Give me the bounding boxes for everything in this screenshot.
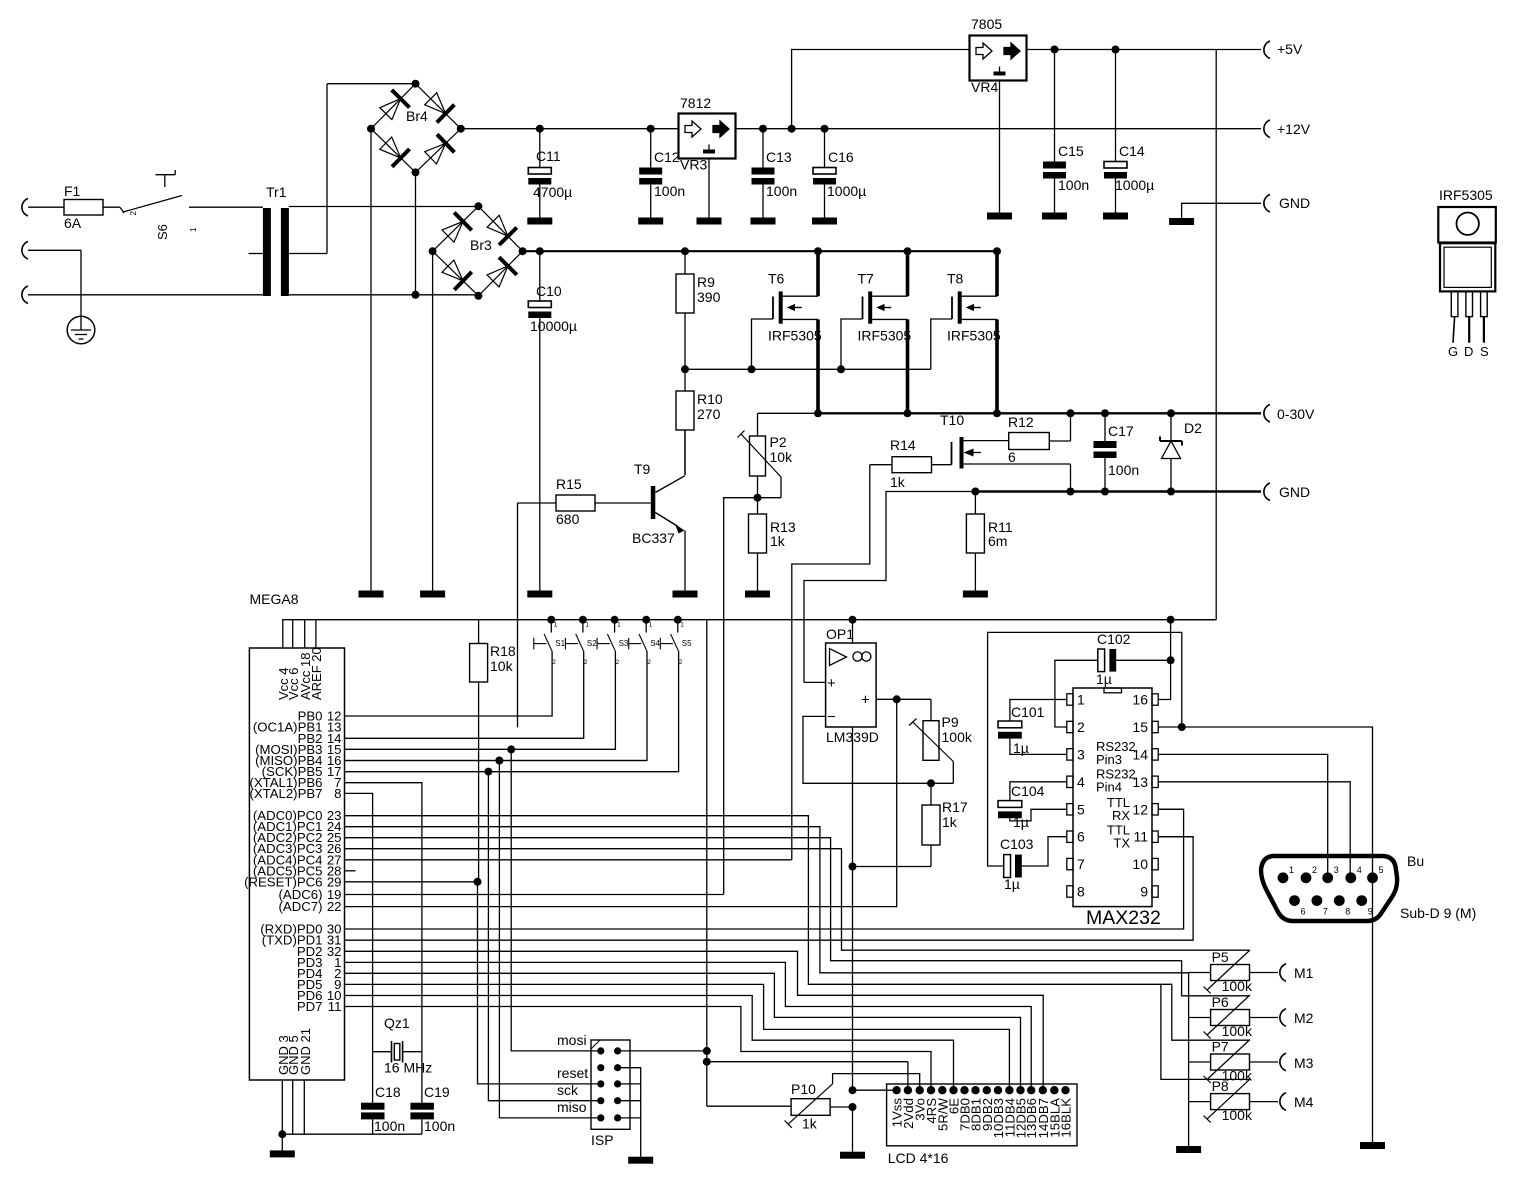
ground	[963, 591, 988, 598]
ground	[628, 1157, 653, 1164]
node -in/R17	[927, 779, 935, 787]
terminal +5V	[1264, 41, 1303, 59]
capacitor C15	[1043, 46, 1089, 213]
wire 0-30V rail	[818, 412, 1261, 414]
svg-text:1: 1	[680, 622, 684, 629]
wire	[708, 159, 710, 218]
svg-text:680: 680	[556, 511, 580, 527]
svg-text:P2: P2	[770, 434, 787, 450]
ground	[1360, 1142, 1385, 1149]
fuse F1	[64, 183, 103, 231]
op-amp OP1	[826, 626, 879, 745]
wire GND rail	[975, 490, 1261, 492]
terminal M1	[1250, 964, 1314, 982]
svg-text:R15: R15	[556, 476, 582, 492]
svg-text:Tr1: Tr1	[266, 184, 287, 200]
svg-text:sck: sck	[557, 1082, 579, 1098]
transistor T6	[748, 247, 823, 417]
wire PC4 row	[345, 859, 792, 861]
svg-text:Pin3: Pin3	[1096, 752, 1122, 767]
svg-text:100n: 100n	[1058, 177, 1089, 193]
node gate bus left	[681, 365, 689, 373]
wire PC2 net	[345, 838, 1250, 996]
wire PD1 net	[345, 837, 1194, 941]
wire PC1 net	[345, 827, 1189, 1146]
svg-text:1k: 1k	[890, 474, 906, 490]
svg-text:PD7: PD7	[297, 999, 323, 1014]
wire	[370, 129, 372, 591]
svg-text:100k: 100k	[942, 729, 973, 745]
svg-text:VR3: VR3	[680, 157, 707, 173]
terminal GND (top)	[1264, 195, 1310, 213]
switch S1	[345, 616, 566, 716]
ground	[697, 218, 722, 225]
svg-text:Qz1: Qz1	[384, 1015, 410, 1031]
wire	[28, 294, 263, 296]
svg-text:10: 10	[1132, 856, 1148, 872]
svg-text:9: 9	[1368, 907, 1373, 917]
wire PD6 net	[345, 996, 954, 1091]
svg-text:1µ: 1µ	[1096, 671, 1112, 687]
svg-text:11: 11	[328, 999, 342, 1014]
svg-text:IRF5305: IRF5305	[858, 328, 912, 344]
svg-text:C13: C13	[766, 149, 792, 165]
capacitor C17	[1094, 409, 1140, 495]
svg-text:IRF5305: IRF5305	[768, 328, 822, 344]
ground	[420, 591, 445, 598]
ground	[1042, 213, 1067, 220]
svg-text:BC337: BC337	[632, 530, 675, 546]
svg-text:Bu: Bu	[1407, 853, 1424, 869]
svg-text:3: 3	[1077, 746, 1085, 762]
svg-text:+5V: +5V	[1277, 41, 1303, 57]
ground	[270, 1150, 295, 1157]
bridge rectifier Br4	[367, 80, 465, 177]
wire PC5 stub	[345, 870, 356, 872]
svg-text:C15: C15	[1058, 143, 1084, 159]
wire 7805 feed	[792, 50, 970, 129]
svg-text:1µ: 1µ	[1013, 740, 1029, 756]
transistor T10	[940, 412, 1071, 469]
ground	[1176, 1146, 1201, 1153]
svg-text:2: 2	[552, 659, 556, 666]
svg-text:C11: C11	[536, 148, 561, 164]
svg-text:16: 16	[1132, 692, 1148, 708]
wire	[28, 249, 81, 251]
svg-text:2: 2	[1077, 719, 1085, 735]
svg-text:2: 2	[647, 659, 651, 666]
capacitor C10	[528, 247, 577, 590]
wire 0-30V rail thin	[758, 412, 819, 414]
svg-text:2: 2	[584, 659, 588, 666]
IRF5305 package drawing	[1438, 187, 1496, 359]
wire RESET	[345, 878, 601, 1084]
svg-text:100n: 100n	[766, 183, 797, 199]
svg-text:0-30V: 0-30V	[1277, 406, 1315, 422]
svg-text:100k: 100k	[1222, 1023, 1253, 1039]
svg-text:4: 4	[1077, 774, 1085, 790]
wire +12V rail right	[736, 128, 1262, 130]
svg-text:+12V: +12V	[1277, 121, 1311, 137]
wire +5V down	[1215, 50, 1217, 620]
input terminal J2 (neutral)	[22, 242, 28, 260]
terminal M4	[1250, 1093, 1314, 1111]
svg-text:P9: P9	[942, 714, 959, 730]
svg-text:D2: D2	[1184, 420, 1202, 436]
svg-text:1: 1	[1289, 865, 1294, 875]
svg-text:C101: C101	[1011, 704, 1045, 720]
svg-text:1k: 1k	[942, 814, 958, 830]
wire to ADC6	[724, 498, 758, 895]
wire ADC6 row	[345, 894, 724, 896]
wire	[189, 206, 263, 208]
svg-text:C103: C103	[1000, 836, 1034, 852]
svg-text:S5: S5	[682, 639, 692, 648]
svg-text:R12: R12	[1008, 414, 1034, 430]
svg-text:7812: 7812	[680, 95, 711, 111]
wire PC0 net	[345, 816, 1250, 1040]
wire R17 gnd	[849, 863, 932, 871]
svg-text:1000µ: 1000µ	[1115, 177, 1154, 193]
svg-text:MEGA8: MEGA8	[250, 591, 299, 607]
svg-text:6: 6	[1008, 449, 1016, 465]
capacitor C18	[361, 1084, 405, 1134]
bridge rectifier Br3	[429, 202, 527, 299]
capacitor C101	[998, 700, 1067, 757]
wire +5V distribution	[283, 620, 1216, 648]
wire GND sense	[804, 492, 975, 683]
svg-text:(ADC7): (ADC7)	[279, 899, 323, 914]
svg-text:OP1: OP1	[826, 626, 854, 642]
wire unregulated rail	[523, 250, 1000, 252]
terminal +12V	[1264, 120, 1311, 138]
terminal M3	[1250, 1053, 1314, 1071]
wire R14 run	[792, 465, 870, 860]
wire	[432, 251, 434, 590]
svg-text:100n: 100n	[1108, 462, 1139, 478]
svg-text:7805: 7805	[971, 16, 1002, 32]
wire PB6 to crystal	[345, 783, 422, 1103]
wire R15 to PB1	[517, 503, 519, 727]
svg-text:1k: 1k	[770, 533, 786, 549]
svg-text:+: +	[861, 692, 870, 709]
svg-text:4700µ: 4700µ	[533, 184, 572, 200]
resistor R18	[470, 620, 516, 882]
ground	[745, 591, 770, 598]
svg-text:1µ: 1µ	[1013, 814, 1029, 830]
svg-text:2: 2	[679, 659, 683, 666]
svg-text:10k: 10k	[770, 449, 794, 465]
wire P8 branch	[1161, 984, 1250, 1079]
wire OP1 V+	[849, 616, 857, 643]
resistor R13	[749, 498, 796, 591]
wire PD7 net	[345, 1007, 932, 1091]
wire pin13 to SubD4	[1158, 782, 1350, 878]
svg-text:7: 7	[1323, 907, 1328, 917]
svg-text:ISP: ISP	[591, 1132, 614, 1148]
svg-text:5: 5	[1077, 801, 1085, 817]
wire	[289, 206, 479, 208]
svg-text:10k: 10k	[490, 658, 514, 674]
svg-text:6: 6	[1077, 829, 1085, 845]
wire PD2 net	[345, 951, 1044, 1090]
svg-text:GND: GND	[1279, 484, 1310, 500]
ground	[987, 213, 1012, 220]
svg-text:6m: 6m	[988, 533, 1007, 549]
potentiometer P9	[909, 699, 973, 783]
svg-text:4: 4	[1357, 865, 1362, 875]
IC MAX232	[1067, 688, 1161, 929]
svg-text:C104: C104	[1011, 783, 1045, 799]
svg-text:P8: P8	[1212, 1078, 1229, 1094]
node +12V/7805	[788, 125, 796, 133]
svg-text:C102: C102	[1097, 631, 1131, 647]
ground	[359, 591, 384, 598]
wire Vcc pin stubs	[293, 620, 316, 648]
capacitor C102	[1055, 631, 1171, 727]
terminal GND (0-30V)	[1264, 483, 1310, 501]
ground	[527, 218, 552, 225]
wire ISP gnd	[618, 1068, 641, 1157]
crystal Qz1	[373, 1015, 433, 1076]
svg-text:MAX232: MAX232	[1086, 907, 1161, 929]
svg-text:mosi: mosi	[557, 1032, 587, 1048]
svg-text:F1: F1	[64, 183, 81, 199]
resistor R17	[922, 783, 968, 866]
potentiometer P6	[1189, 994, 1253, 1039]
svg-text:S4: S4	[650, 639, 660, 648]
wire PC3 net	[345, 849, 1250, 951]
svg-text:(XTAL2)PB7: (XTAL2)PB7	[249, 786, 322, 801]
svg-text:1µ: 1µ	[1004, 876, 1020, 892]
terminal 0-30V	[1264, 405, 1315, 423]
resistor R11	[966, 488, 1012, 591]
transistor T9 BC337	[632, 430, 685, 591]
transformer Tr1	[249, 184, 289, 296]
svg-text:C18: C18	[375, 1084, 401, 1100]
wire	[28, 206, 64, 208]
potentiometer P8	[1189, 1078, 1253, 1123]
svg-text:reset: reset	[557, 1065, 588, 1081]
resistor R10	[676, 369, 723, 475]
voltage regulator VR4 7805	[970, 16, 1027, 95]
wire PD4 net	[345, 973, 1021, 1090]
wire PD5 net	[345, 984, 1010, 1090]
svg-text:T8: T8	[947, 271, 964, 287]
svg-text:2: 2	[1312, 865, 1317, 875]
resistor R14	[870, 437, 952, 490]
wire LCD Vss gnd	[849, 1086, 897, 1152]
resistor R9	[676, 247, 721, 369]
svg-text:Br4: Br4	[406, 108, 428, 124]
LCD connector LCD 4*16	[887, 1084, 1077, 1166]
ground	[1169, 218, 1194, 225]
svg-text:15: 15	[1132, 719, 1148, 735]
svg-text:Sub-D 9 (M): Sub-D 9 (M)	[1400, 905, 1476, 921]
svg-text:R10: R10	[697, 391, 723, 407]
svg-text:S3: S3	[619, 639, 629, 648]
connector Bu Sub-D 9 (M)	[1261, 853, 1476, 921]
ground	[1103, 213, 1128, 220]
input terminal J1 (line)	[22, 199, 28, 217]
ground	[527, 591, 552, 598]
wire	[999, 81, 1001, 213]
wire	[289, 294, 479, 296]
ground	[673, 591, 698, 598]
MEGA8 GND pin labels	[276, 1028, 313, 1075]
wire pin11 to PD1	[1158, 836, 1193, 838]
wire OP1 gnd	[852, 727, 854, 1090]
svg-text:1k: 1k	[802, 1116, 818, 1132]
wire MOSI	[345, 745, 615, 1051]
potentiometer P7	[1189, 1039, 1253, 1084]
svg-text:S: S	[1480, 344, 1489, 359]
IC MEGA8 body	[249, 648, 344, 1080]
svg-text:R17: R17	[942, 799, 968, 815]
ground	[751, 218, 776, 225]
svg-text:M1: M1	[1294, 965, 1314, 981]
ground	[840, 1152, 865, 1159]
svg-text:RX: RX	[1112, 808, 1130, 823]
svg-text:3: 3	[1334, 865, 1339, 875]
svg-text:C12: C12	[654, 149, 680, 165]
svg-text:VR4: VR4	[971, 79, 998, 95]
svg-text:100n: 100n	[654, 183, 685, 199]
svg-text:8: 8	[334, 786, 341, 801]
svg-text:9: 9	[1140, 884, 1148, 900]
svg-text:P6: P6	[1212, 994, 1229, 1010]
svg-text:C17: C17	[1108, 423, 1134, 439]
svg-text:1: 1	[189, 227, 198, 232]
svg-text:5: 5	[1379, 865, 1384, 875]
svg-text:M3: M3	[1294, 1055, 1314, 1071]
svg-text:T7: T7	[858, 271, 875, 287]
svg-text:C19: C19	[424, 1084, 450, 1100]
svg-text:100k: 100k	[1222, 978, 1253, 994]
svg-text:S6: S6	[155, 224, 170, 240]
svg-text:16BLK: 16BLK	[1059, 1098, 1074, 1138]
node P2/R13	[754, 476, 782, 502]
wire +12V rail left	[461, 128, 679, 130]
MEGA8 Vcc pin labels	[276, 647, 324, 700]
svg-text:M4: M4	[1294, 1094, 1314, 1110]
wire OP1 out	[876, 695, 931, 703]
potentiometer P10	[785, 1074, 920, 1132]
wire OP1 out to ADC7	[345, 699, 897, 906]
transistor T7	[837, 247, 912, 417]
wire +5V to pin16	[1158, 616, 1216, 700]
svg-text:8: 8	[1077, 884, 1085, 900]
svg-text:7: 7	[1077, 856, 1085, 872]
svg-text:TX: TX	[1113, 836, 1130, 851]
switch S5	[345, 616, 693, 772]
svg-text:270: 270	[697, 406, 721, 422]
svg-text:S2: S2	[587, 639, 597, 648]
capacitor C16	[813, 125, 866, 218]
ISP pins	[597, 1047, 621, 1121]
wire	[1182, 203, 1261, 218]
earth ground symbol	[67, 316, 95, 344]
svg-text:100n: 100n	[374, 1118, 405, 1134]
svg-text:S1: S1	[555, 639, 565, 648]
svg-text:T6: T6	[768, 271, 785, 287]
svg-text:GND 21: GND 21	[298, 1028, 313, 1075]
svg-text:−: −	[827, 709, 836, 726]
wire gate bus	[685, 368, 931, 370]
svg-text:P5: P5	[1212, 949, 1229, 965]
ISP connector	[557, 1032, 630, 1148]
capacitor C104	[998, 782, 1067, 830]
ground	[638, 218, 663, 225]
wire pin14 to SubD3	[1158, 754, 1328, 877]
svg-text:1: 1	[585, 622, 589, 629]
svg-text:G: G	[1448, 344, 1458, 359]
svg-text:2: 2	[616, 659, 620, 666]
svg-text:Pin4: Pin4	[1096, 780, 1122, 795]
capacitor C12	[639, 125, 685, 218]
resistor R12	[1008, 409, 1075, 465]
terminal M2	[1250, 1009, 1314, 1026]
svg-text:T9: T9	[634, 461, 651, 477]
wire	[103, 206, 120, 208]
MEGA8 GND pins	[278, 1080, 422, 1150]
switch S3	[345, 616, 629, 750]
capacitor C19	[410, 1084, 455, 1134]
capacitor C103	[988, 632, 1182, 892]
svg-text:8: 8	[1345, 907, 1350, 917]
svg-text:R18: R18	[490, 643, 516, 659]
IC MEGA8 label	[250, 591, 299, 607]
svg-text:R14: R14	[890, 437, 916, 453]
potentiometer P2	[738, 413, 794, 497]
svg-text:IRF5305: IRF5305	[947, 328, 1001, 344]
svg-text:6A: 6A	[64, 215, 82, 231]
wire PB7 to crystal	[345, 793, 373, 1102]
svg-text:R9: R9	[697, 274, 715, 290]
wire	[80, 250, 82, 316]
svg-text:P10: P10	[791, 1081, 816, 1097]
svg-text:IRF5305: IRF5305	[1439, 187, 1493, 203]
svg-text:GND: GND	[1279, 195, 1310, 211]
wire PD0 net	[345, 809, 1184, 929]
svg-text:1: 1	[554, 622, 558, 629]
wire OP1 -in	[803, 716, 953, 783]
svg-text:P7: P7	[1212, 1039, 1229, 1055]
svg-text:100k: 100k	[1222, 1107, 1253, 1123]
capacitor C14	[1104, 46, 1154, 213]
svg-text:C16: C16	[828, 149, 854, 165]
wire +5V rail	[1027, 49, 1262, 51]
capacitor C11	[528, 125, 572, 218]
svg-text:1: 1	[1077, 692, 1085, 708]
wire pin12 to PD0	[1158, 808, 1183, 810]
svg-text:22: 22	[327, 899, 342, 914]
svg-text:12: 12	[1132, 801, 1148, 817]
wire MISO	[345, 757, 647, 1118]
svg-text:390: 390	[697, 289, 721, 305]
diode D2 (zener)	[1160, 409, 1202, 495]
wire	[289, 84, 327, 254]
wire T10 drain to GND rail	[1067, 464, 1075, 496]
svg-text:D: D	[1464, 344, 1473, 359]
svg-text:C14: C14	[1119, 143, 1145, 159]
capacitor C13	[752, 125, 798, 218]
wire pin15 to SubD5	[1178, 723, 1373, 1142]
wire OP1 +in	[804, 681, 826, 683]
svg-text:11: 11	[1133, 829, 1148, 845]
potentiometer P5	[1189, 949, 1253, 994]
switch S2	[345, 616, 598, 739]
